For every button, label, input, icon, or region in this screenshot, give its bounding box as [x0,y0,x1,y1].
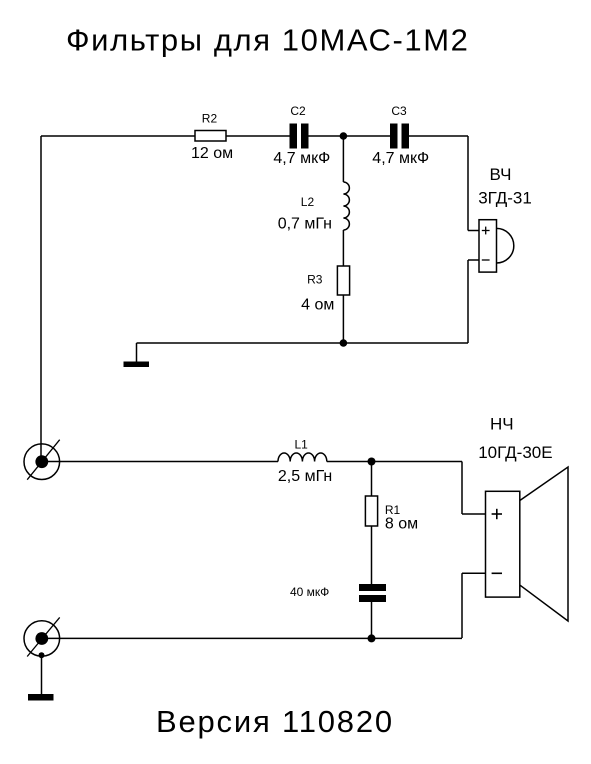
svg-text:R2: R2 [202,112,218,126]
svg-text:L2: L2 [301,195,315,209]
svg-text:C2: C2 [290,104,306,118]
svg-text:C3: C3 [391,104,407,118]
svg-text:40 мкФ: 40 мкФ [290,585,329,599]
svg-text:Версия 110820: Версия 110820 [156,704,394,739]
svg-text:Фильтры для 10МАС-1М2: Фильтры для 10МАС-1М2 [66,23,470,58]
svg-text:0,7 мГн: 0,7 мГн [278,216,332,233]
svg-text:12 ом: 12 ом [191,145,233,162]
svg-text:4,7 мкФ: 4,7 мкФ [273,150,330,167]
svg-text:L1: L1 [295,438,309,452]
svg-text:R3: R3 [307,273,323,287]
svg-text:НЧ: НЧ [490,415,514,434]
svg-text:10ГД-30Е: 10ГД-30Е [478,443,552,462]
svg-text:4,7 мкФ: 4,7 мкФ [372,150,429,167]
svg-text:ВЧ: ВЧ [490,165,512,184]
svg-text:4 ом: 4 ом [301,297,334,314]
svg-text:3ГД-31: 3ГД-31 [478,189,532,208]
svg-text:8 ом: 8 ом [385,516,418,533]
svg-text:2,5 мГн: 2,5 мГн [278,468,332,485]
